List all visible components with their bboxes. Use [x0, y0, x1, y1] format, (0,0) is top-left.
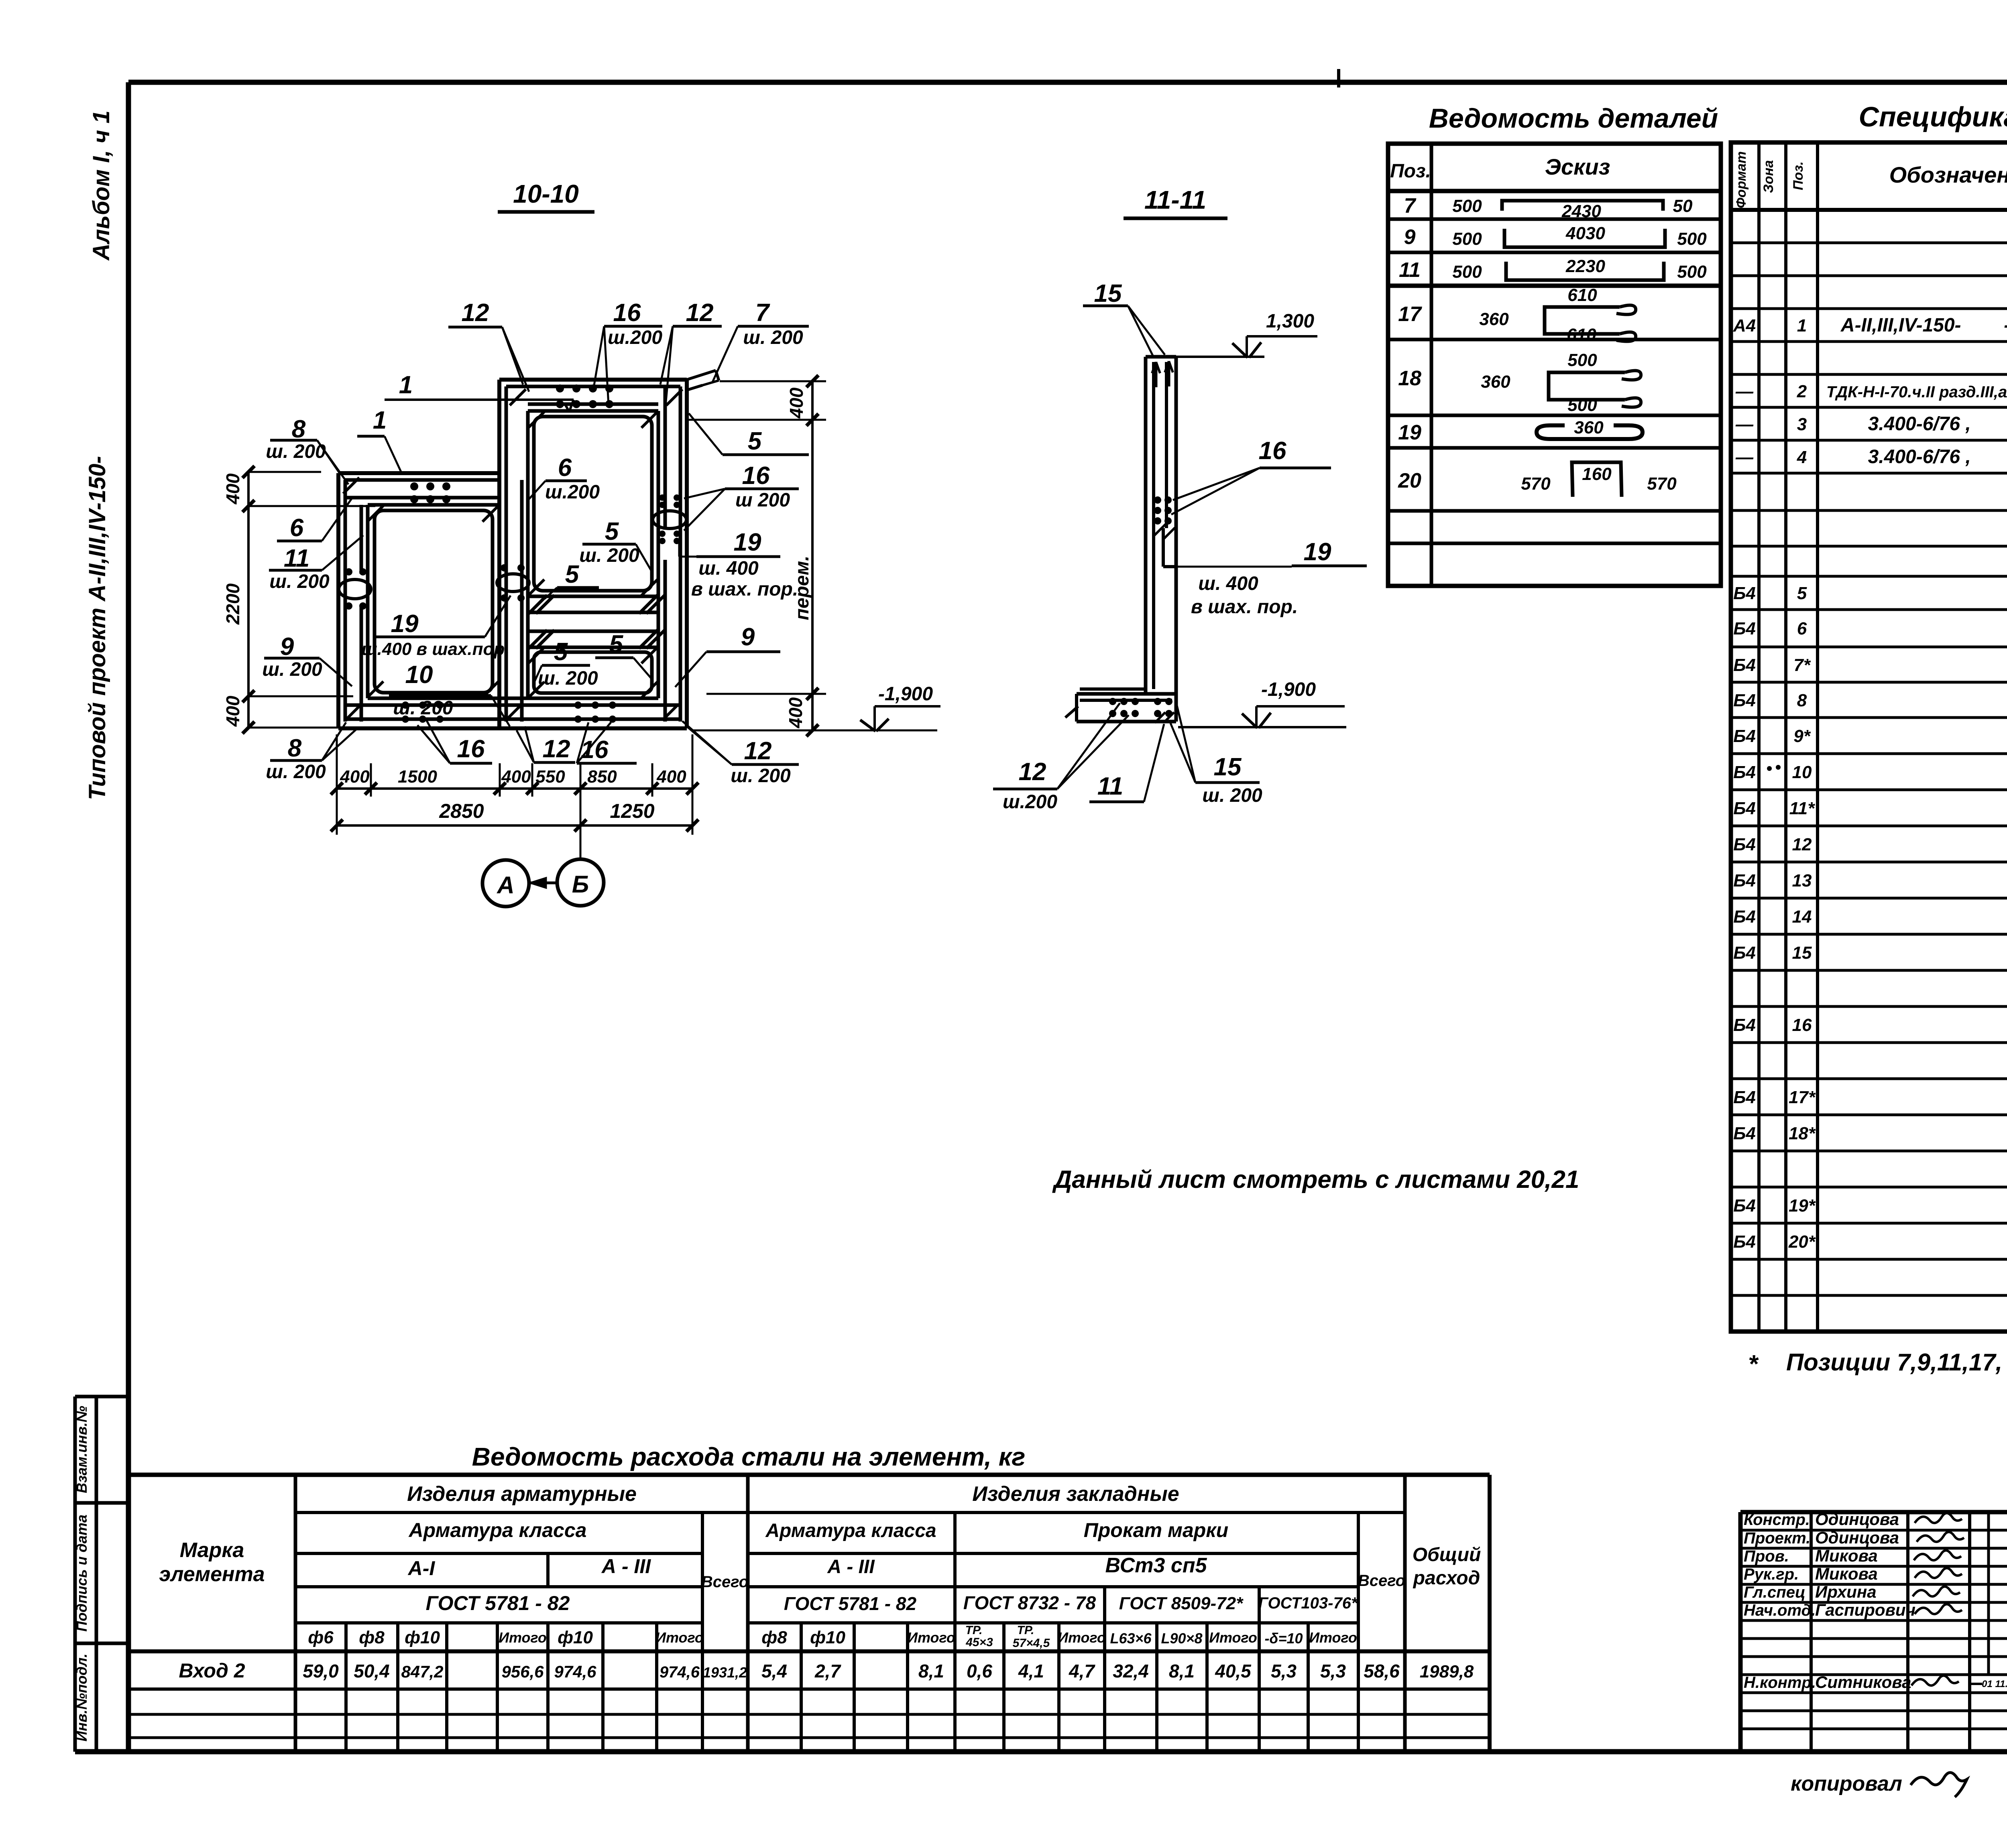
- zone dots row 10: [1767, 766, 1772, 771]
- middle wall left edge: [497, 380, 501, 728]
- svg-text:6: 6: [290, 514, 304, 542]
- svg-text:360: 360: [1481, 372, 1510, 392]
- svg-text:А: А: [496, 872, 514, 899]
- title block outline: [1740, 1510, 2007, 1515]
- svg-text:элемента: элемента: [159, 1563, 265, 1586]
- svg-text:500: 500: [1452, 262, 1482, 282]
- svg-text:Б4: Б4: [1733, 1232, 1756, 1252]
- svg-text:копировал: копировал: [1791, 1772, 1902, 1795]
- svg-text:А - III: А - III: [827, 1556, 875, 1578]
- svg-text:1250: 1250: [610, 800, 654, 822]
- svg-text:Б4: Б4: [1733, 762, 1756, 782]
- footing dots 11-11: [1109, 698, 1116, 705]
- svg-text:12: 12: [744, 737, 772, 765]
- svg-text:4030: 4030: [1565, 224, 1605, 243]
- svg-text:ш 200: ш 200: [735, 490, 790, 511]
- svg-text:Проект.: Проект.: [1744, 1529, 1810, 1547]
- svg-text:ш.200: ш.200: [545, 482, 600, 503]
- svg-text:L90×8: L90×8: [1161, 1630, 1202, 1647]
- svg-text:Позиции 7,9,11,17, 18, 19, 20: Позиции 7,9,11,17, 18, 19, 20 см. ведомо…: [1786, 1349, 2007, 1376]
- svg-text:ТР.: ТР.: [965, 1624, 983, 1637]
- left cell top inner edge: [368, 503, 499, 507]
- svg-text:ф10: ф10: [558, 1628, 593, 1647]
- svg-text:Эскиз: Эскиз: [1545, 154, 1610, 179]
- mesh frame left cell: [375, 510, 493, 693]
- bottom dimension chain 2850-1250: [337, 824, 692, 827]
- svg-text:ш.200: ш.200: [1003, 791, 1057, 813]
- svg-text:Инв.№подл.: Инв.№подл.: [73, 1653, 90, 1741]
- wall outer right: [1174, 357, 1178, 722]
- svg-text:8: 8: [1797, 691, 1807, 710]
- svg-text:8: 8: [288, 734, 302, 762]
- svg-text:1: 1: [1797, 316, 1807, 335]
- svg-text:12: 12: [1019, 758, 1046, 786]
- svg-text:ш. 200: ш. 200: [266, 441, 326, 462]
- svg-text:Всего: Всего: [1358, 1572, 1405, 1590]
- svg-text:2850: 2850: [439, 800, 484, 822]
- svg-text:1989,8: 1989,8: [1420, 1662, 1474, 1681]
- svg-text:20: 20: [1398, 469, 1421, 492]
- svg-text:ТДК-Н-I-70.ч.II разд.III,ал.4,: ТДК-Н-I-70.ч.II разд.III,ал.4,л.КС-4-3: [1826, 383, 2007, 401]
- svg-text:360: 360: [1479, 309, 1509, 329]
- bottom band inner edge: [368, 697, 658, 700]
- svg-text:перем.: перем.: [792, 556, 813, 620]
- svg-text:0,6: 0,6: [967, 1661, 992, 1681]
- svg-text:400: 400: [786, 387, 807, 419]
- svg-text:50: 50: [1673, 196, 1693, 216]
- svg-text:Общий: Общий: [1413, 1544, 1481, 1565]
- svg-text:в шах. пор.: в шах. пор.: [691, 579, 798, 600]
- svg-text:8,1: 8,1: [1169, 1661, 1195, 1681]
- right vertical dimension 400-перем-400: [811, 380, 814, 730]
- svg-text:Арматура класса: Арматура класса: [408, 1519, 587, 1541]
- svg-text:—: —: [1735, 382, 1754, 401]
- svg-text:5: 5: [748, 427, 762, 455]
- svg-text:2430: 2430: [1561, 201, 1601, 221]
- svg-text:11: 11: [1097, 773, 1123, 800]
- svg-text:ш.200: ш.200: [608, 327, 662, 348]
- steel table grid: [128, 1473, 1490, 1477]
- rebar dots top band left block: [410, 482, 418, 490]
- svg-text:Итого: Итого: [1209, 1629, 1257, 1646]
- wall outer left edge: [336, 473, 340, 728]
- svg-text:Б: Б: [572, 871, 589, 898]
- svg-text:в шах. пор.: в шах. пор.: [1191, 596, 1298, 618]
- svg-text:2200: 2200: [222, 583, 243, 625]
- svg-text:7: 7: [755, 299, 770, 327]
- sheet frame: [128, 80, 2007, 85]
- svg-text:360: 360: [1574, 418, 1604, 437]
- wall top edge left block: [338, 471, 499, 475]
- svg-text:14: 14: [1792, 907, 1812, 927]
- svg-text:400: 400: [785, 697, 806, 728]
- svg-text:16: 16: [1259, 437, 1286, 465]
- svg-text:ш. 400: ш. 400: [1198, 573, 1258, 594]
- svg-text:610: 610: [1567, 285, 1597, 305]
- svg-text:5,4: 5,4: [761, 1661, 787, 1681]
- footing break tick: [1065, 706, 1078, 718]
- svg-text:12: 12: [686, 299, 714, 327]
- svg-text:15: 15: [1792, 943, 1812, 963]
- svg-text:10: 10: [1792, 762, 1812, 782]
- svg-text:Итого: Итого: [499, 1629, 547, 1646]
- middle wall right edge: [526, 411, 530, 698]
- svg-text:Рук.гр.: Рук.гр.: [1744, 1565, 1799, 1583]
- fold tick marks: [1337, 69, 1340, 87]
- svg-text:Б4: Б4: [1733, 799, 1756, 818]
- parts table grid: [1388, 144, 1721, 586]
- svg-text:Одинцова: Одинцова: [1815, 1528, 1899, 1547]
- svg-text:12: 12: [462, 299, 489, 327]
- svg-text:7: 7: [1404, 194, 1417, 218]
- lap detail right wall: [653, 511, 686, 529]
- svg-text:ш. 200: ш. 200: [743, 327, 803, 348]
- svg-text:400: 400: [222, 473, 243, 504]
- svg-text:160: 160: [1582, 464, 1612, 484]
- upper cell top inner edge: [528, 409, 658, 413]
- svg-text:Н.контр.: Н.контр.: [1744, 1674, 1816, 1691]
- svg-text:-δ=10: -δ=10: [1264, 1630, 1303, 1647]
- svg-text:01 11.82: 01 11.82: [1982, 1679, 2007, 1689]
- svg-text:3.400-6/76 , л.36: 3.400-6/76 , л.36: [1868, 413, 2007, 435]
- svg-text:1: 1: [399, 371, 413, 399]
- svg-text:Изделия арматурные: Изделия арматурные: [407, 1482, 637, 1506]
- svg-text:Итого: Итого: [1309, 1629, 1357, 1646]
- svg-text:Б4: Б4: [1733, 1124, 1756, 1143]
- right wall inner edge: [657, 411, 660, 698]
- svg-text:12: 12: [1792, 835, 1812, 854]
- svg-text:5: 5: [605, 518, 619, 545]
- svg-text:1931,2: 1931,2: [703, 1664, 747, 1681]
- svg-text:1,300: 1,300: [1266, 311, 1314, 332]
- svg-text:-1,900: -1,900: [878, 683, 933, 705]
- svg-text:50,4: 50,4: [354, 1661, 390, 1681]
- svg-text:2: 2: [1797, 382, 1807, 401]
- svg-text:19: 19: [734, 529, 761, 556]
- svg-text:Гаспирович: Гаспирович: [1815, 1600, 1915, 1619]
- svg-text:11-11: 11-11: [1144, 185, 1206, 214]
- svg-text:ГОСТ103-76*: ГОСТ103-76*: [1258, 1594, 1358, 1612]
- rebar dots bottom band: [402, 701, 409, 709]
- svg-text:12: 12: [543, 735, 570, 763]
- svg-text:Б4: Б4: [1733, 943, 1756, 963]
- svg-text:Типовой проект А-II,III,IV-150: Типовой проект А-II,III,IV-150-: [84, 456, 110, 800]
- svg-text:400: 400: [656, 767, 686, 787]
- svg-text:ВСт3 сп5: ВСт3 сп5: [1105, 1554, 1207, 1577]
- svg-text:847,2: 847,2: [401, 1662, 443, 1681]
- svg-text:Всего: Всего: [701, 1573, 749, 1591]
- svg-text:11: 11: [1399, 258, 1421, 282]
- svg-text:9: 9: [741, 623, 755, 651]
- svg-text:Альбом I, ч 1: Альбом I, ч 1: [88, 110, 114, 261]
- svg-text:17*: 17*: [1789, 1088, 1816, 1107]
- svg-text:15: 15: [1214, 753, 1242, 781]
- svg-text:ш. 200: ш. 200: [269, 571, 330, 592]
- svg-text:Б4: Б4: [1733, 619, 1756, 638]
- svg-text:Б4: Б4: [1733, 1196, 1756, 1216]
- svg-text:5: 5: [565, 561, 580, 588]
- svg-text:18: 18: [1398, 367, 1421, 390]
- svg-text:ш. 200: ш. 200: [579, 545, 639, 566]
- svg-text:400: 400: [501, 767, 531, 787]
- svg-text:4: 4: [1797, 447, 1807, 467]
- svg-text:ф10: ф10: [810, 1628, 845, 1647]
- svg-text:Итого: Итого: [655, 1629, 704, 1646]
- svg-text:ф8: ф8: [359, 1628, 385, 1647]
- middle bands between right cells: [528, 595, 658, 598]
- svg-text:Данный лист смотреть с листа: Данный лист смотреть с листами 20,21: [1052, 1166, 1580, 1193]
- svg-text:—: —: [1735, 415, 1754, 434]
- svg-text:Ведомость деталей: Ведомость деталей: [1429, 103, 1718, 134]
- svg-text:1: 1: [373, 407, 387, 434]
- wall rebar dots 11-11: [1154, 496, 1161, 504]
- svg-text:45×3: 45×3: [965, 1636, 993, 1649]
- svg-text:Микова: Микова: [1815, 1564, 1878, 1583]
- svg-text:500: 500: [1677, 262, 1707, 282]
- signatures squiggles: [1915, 1513, 1962, 1523]
- svg-text:5: 5: [609, 630, 624, 658]
- svg-text:Арматура класса: Арматура класса: [765, 1520, 936, 1541]
- svg-text:А-I: А-I: [407, 1557, 436, 1580]
- svg-text:ф10: ф10: [405, 1628, 440, 1647]
- svg-text:500: 500: [1452, 229, 1482, 249]
- svg-text:18*: 18*: [1789, 1124, 1816, 1143]
- svg-text:11: 11: [284, 545, 309, 572]
- svg-text:ш.400 в шах.пор.: ш.400 в шах.пор.: [362, 639, 510, 659]
- svg-text:500: 500: [1677, 229, 1707, 249]
- svg-text:Б4: Б4: [1733, 835, 1756, 854]
- right wall outer edge: [685, 380, 689, 728]
- svg-text:Ситникова: Ситникова: [1815, 1673, 1911, 1691]
- svg-text:Б4: Б4: [1733, 1088, 1756, 1107]
- spec table grid: [1731, 142, 2007, 1332]
- svg-text:расход: расход: [1413, 1567, 1480, 1589]
- svg-text:А - III: А - III: [601, 1555, 651, 1578]
- svg-text:Одинцова: Одинцова: [1815, 1510, 1899, 1529]
- svg-text:Итого: Итого: [1058, 1629, 1106, 1646]
- svg-text:58,6: 58,6: [1364, 1661, 1400, 1681]
- svg-text:5: 5: [1797, 583, 1807, 603]
- svg-text:Зона: Зона: [1761, 160, 1776, 193]
- svg-text:19: 19: [1398, 421, 1421, 444]
- svg-text:Прокат марки: Прокат марки: [1084, 1519, 1228, 1541]
- left vertical dimension 400-2200-400: [247, 472, 250, 728]
- svg-text:ГОСТ 8509-72*: ГОСТ 8509-72*: [1119, 1594, 1244, 1613]
- svg-text:20*: 20*: [1788, 1232, 1816, 1252]
- svg-text:ф8: ф8: [761, 1628, 787, 1647]
- svg-text:15: 15: [1094, 280, 1122, 307]
- svg-text:1500: 1500: [398, 767, 437, 787]
- svg-text:А4: А4: [1733, 316, 1756, 335]
- corner hatches cells: [367, 506, 383, 522]
- svg-text:6: 6: [558, 454, 572, 482]
- svg-text:16: 16: [457, 735, 485, 763]
- wall outer left: [1144, 357, 1148, 694]
- svg-text:16: 16: [613, 299, 641, 327]
- svg-text:16: 16: [581, 736, 609, 764]
- svg-text:3.400-6/76 , л.36: 3.400-6/76 , л.36: [1868, 446, 2007, 468]
- svg-text:Б4: Б4: [1733, 655, 1756, 675]
- svg-text:Марка: Марка: [180, 1539, 244, 1562]
- svg-text:ГОСТ 5781 - 82: ГОСТ 5781 - 82: [426, 1592, 570, 1614]
- svg-text:А-II,III,IV-150- -КЖИ-С: А-II,III,IV-150- -КЖИ-С2: [1840, 315, 2007, 336]
- svg-text:ГОСТ 8732 - 78: ГОСТ 8732 - 78: [963, 1592, 1096, 1613]
- svg-text:Формат: Формат: [1734, 151, 1749, 208]
- svg-text:5,3: 5,3: [1271, 1661, 1297, 1681]
- svg-text:59,0: 59,0: [303, 1661, 339, 1681]
- wall top: [1146, 355, 1176, 359]
- svg-text:ш. 200: ш. 200: [538, 668, 598, 689]
- axis circles А Б: [482, 860, 529, 907]
- svg-text:4,1: 4,1: [1018, 1661, 1044, 1681]
- svg-text:Поз.: Поз.: [1791, 161, 1806, 190]
- svg-text:ш. 200: ш. 200: [266, 761, 326, 783]
- svg-text:Подпись и дата: Подпись и дата: [73, 1515, 90, 1632]
- lap detail middle wall: [497, 574, 529, 592]
- svg-text:ГОСТ 5781 - 82: ГОСТ 5781 - 82: [784, 1593, 917, 1614]
- svg-text:Обозначение: Обозначение: [1889, 162, 2007, 187]
- svg-text:Итого: Итого: [907, 1629, 955, 1646]
- svg-text:400: 400: [222, 695, 243, 727]
- svg-text:9*: 9*: [1793, 726, 1811, 746]
- svg-text:3: 3: [1797, 415, 1807, 434]
- svg-text:L63×6: L63×6: [1110, 1630, 1152, 1647]
- wall bottom outer edge: [338, 726, 687, 730]
- svg-text:500: 500: [1567, 350, 1597, 370]
- top right flare: [687, 370, 716, 380]
- svg-text:Пров.: Пров.: [1744, 1547, 1789, 1565]
- svg-text:550: 550: [535, 767, 565, 787]
- mesh bar arrows wall top: [1155, 365, 1158, 387]
- svg-text:Изделия закладные: Изделия закладные: [972, 1482, 1179, 1506]
- svg-text:570: 570: [1521, 474, 1551, 494]
- svg-text:ТР.: ТР.: [1017, 1624, 1034, 1637]
- svg-text:32,4: 32,4: [1113, 1661, 1149, 1681]
- svg-text:ш. 200: ш. 200: [731, 765, 791, 787]
- svg-text:16: 16: [1792, 1015, 1812, 1035]
- svg-text:6: 6: [1797, 619, 1807, 638]
- svg-text:*: *: [1748, 1350, 1759, 1378]
- mesh frame upper right cell: [534, 417, 652, 591]
- svg-text:850: 850: [587, 767, 617, 787]
- svg-text:13: 13: [1792, 871, 1812, 890]
- svg-text:Микова: Микова: [1815, 1546, 1878, 1565]
- svg-text:ф6: ф6: [308, 1628, 334, 1647]
- svg-text:57×4,5: 57×4,5: [1013, 1637, 1050, 1650]
- svg-text:Б4: Б4: [1733, 871, 1756, 890]
- svg-text:9: 9: [1404, 226, 1416, 249]
- svg-text:Гл.спец: Гл.спец: [1744, 1584, 1805, 1601]
- svg-text:—: —: [1735, 447, 1754, 467]
- svg-text:Констр.: Констр.: [1744, 1511, 1810, 1529]
- svg-text:Взам.инв.№: Взам.инв.№: [73, 1406, 90, 1493]
- svg-text:Вход 2: Вход 2: [179, 1659, 245, 1682]
- bottom dimension chain 400-1500-400-550-850-400: [337, 787, 692, 790]
- left wall inner edge: [366, 505, 370, 698]
- svg-text:Б4: Б4: [1733, 726, 1756, 746]
- svg-text:ш. 200: ш. 200: [393, 697, 453, 719]
- mesh lap step 11-11: [1162, 528, 1165, 567]
- svg-text:11*: 11*: [1789, 799, 1816, 818]
- svg-text:-1,900: -1,900: [1261, 679, 1316, 700]
- sketch pos19 loop 360: [1537, 425, 1643, 439]
- svg-text:Нач.отд.: Нач.отд.: [1744, 1602, 1816, 1619]
- svg-text:Б4: Б4: [1733, 907, 1756, 927]
- svg-text:400: 400: [340, 767, 370, 787]
- right block top outer edge: [499, 378, 687, 382]
- left attribute strip boxes: [75, 1395, 128, 1399]
- svg-text:Б4: Б4: [1733, 583, 1756, 603]
- svg-text:Ирхина: Ирхина: [1815, 1582, 1877, 1601]
- mesh frame lower right cell: [534, 652, 652, 693]
- svg-text:9: 9: [280, 633, 294, 661]
- svg-text:19*: 19*: [1789, 1196, 1816, 1216]
- svg-text:5: 5: [554, 638, 568, 666]
- svg-text:500: 500: [1452, 196, 1482, 216]
- svg-text:Поз.: Поз.: [1390, 161, 1431, 182]
- svg-text:Б4: Б4: [1733, 1015, 1756, 1035]
- svg-text:5,3: 5,3: [1320, 1661, 1346, 1681]
- svg-text:19: 19: [391, 610, 419, 638]
- svg-text:10: 10: [405, 661, 433, 689]
- svg-text:2,7: 2,7: [814, 1661, 841, 1681]
- svg-text:10-10: 10-10: [513, 179, 579, 208]
- svg-text:974,6: 974,6: [554, 1662, 596, 1681]
- svg-text:40,5: 40,5: [1215, 1661, 1252, 1681]
- svg-text:7*: 7*: [1793, 655, 1811, 675]
- svg-text:ш. 400: ш. 400: [698, 558, 759, 579]
- svg-text:17: 17: [1398, 303, 1422, 326]
- svg-text:2230: 2230: [1565, 256, 1605, 276]
- svg-text:974,6: 974,6: [660, 1663, 700, 1681]
- svg-text:ш. 200: ш. 200: [262, 659, 322, 680]
- svg-text:Ведомость расхода стали на: Ведомость расхода стали на элемент, кг: [472, 1442, 1026, 1471]
- lap detail left wall: [339, 579, 371, 599]
- svg-text:16: 16: [742, 462, 770, 490]
- svg-text:Б4: Б4: [1733, 691, 1756, 710]
- svg-text:956,6: 956,6: [501, 1662, 544, 1681]
- svg-text:ш. 200: ш. 200: [1202, 785, 1262, 806]
- svg-text:Спецификация Входа 2: Спецификация Входа 2: [1859, 101, 2007, 132]
- rebar dots top band right block: [556, 384, 564, 392]
- svg-text:8,1: 8,1: [918, 1661, 944, 1681]
- svg-text:19: 19: [1304, 538, 1331, 566]
- left wall mesh line: [344, 480, 347, 722]
- footing 11-11: [1080, 687, 1146, 691]
- svg-text:570: 570: [1647, 474, 1677, 494]
- svg-text:4,7: 4,7: [1069, 1661, 1095, 1681]
